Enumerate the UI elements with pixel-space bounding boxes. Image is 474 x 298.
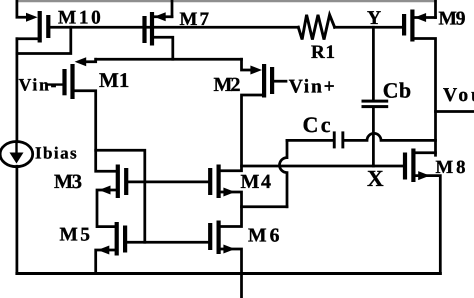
svg-text:M8: M8 <box>436 157 466 178</box>
svg-text:M4: M4 <box>241 171 272 193</box>
svg-text:M9: M9 <box>439 9 466 30</box>
svg-text:X: X <box>367 166 384 191</box>
svg-text:M10: M10 <box>58 8 101 29</box>
svg-text:M1: M1 <box>99 68 129 92</box>
svg-text:M5: M5 <box>60 225 91 246</box>
svg-text:Cb: Cb <box>383 79 411 103</box>
svg-text:Vin-: Vin- <box>19 74 57 94</box>
svg-text:M6: M6 <box>248 225 280 247</box>
svg-text:Cc: Cc <box>303 112 331 137</box>
svg-text:R1: R1 <box>311 42 335 63</box>
svg-text:M2: M2 <box>214 74 241 96</box>
svg-text:Vou: Vou <box>443 85 474 106</box>
svg-text:M3: M3 <box>54 171 82 193</box>
svg-text:Y: Y <box>367 8 381 29</box>
svg-text:Ibias: Ibias <box>35 144 77 163</box>
svg-text:M7: M7 <box>180 9 210 30</box>
svg-text:Vin+: Vin+ <box>289 77 335 98</box>
